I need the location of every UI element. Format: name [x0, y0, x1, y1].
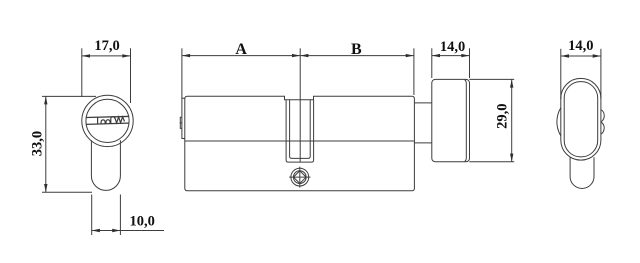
- svg-text:10,0: 10,0: [130, 213, 155, 229]
- svg-text:33,0: 33,0: [29, 131, 45, 156]
- svg-text:A: A: [235, 41, 247, 58]
- svg-text:17,0: 17,0: [94, 38, 119, 54]
- svg-text:29,0: 29,0: [495, 104, 511, 129]
- svg-text:14,0: 14,0: [440, 39, 465, 55]
- svg-text:14,0: 14,0: [568, 38, 593, 54]
- svg-text:B: B: [351, 41, 362, 58]
